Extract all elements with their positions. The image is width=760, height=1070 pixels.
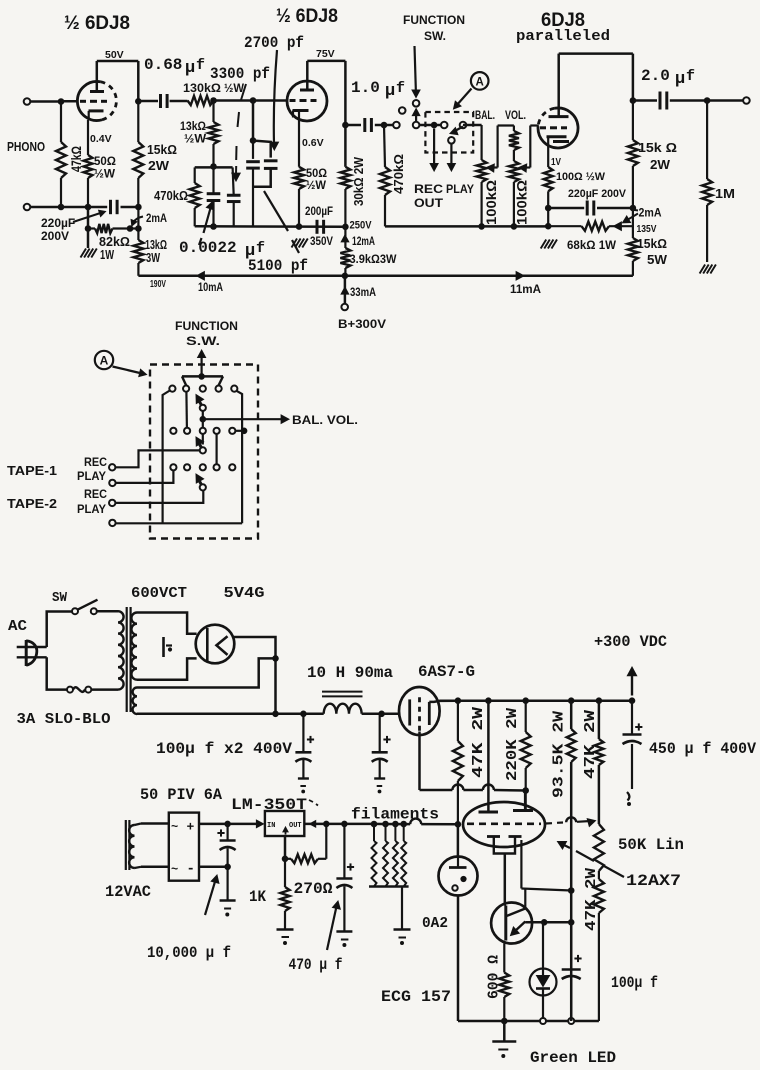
node rail x525.7 <box>523 698 529 704</box>
center tap mark <box>164 637 173 657</box>
svg-text:135V: 135V <box>637 224 657 235</box>
wire to C6 <box>633 99 657 102</box>
label 2.0 µ f <box>641 67 695 89</box>
leader A to box <box>454 89 472 110</box>
label 450 µ f 400V <box>649 740 757 758</box>
svg-text:~: ~ <box>171 820 178 834</box>
svg-text:½W: ½W <box>184 134 206 146</box>
wire node B down <box>252 101 255 141</box>
svg-text:FUNCTION: FUNCTION <box>175 319 238 333</box>
svg-text:ECG 157: ECG 157 <box>381 988 451 1006</box>
svg-text:5V4G: 5V4G <box>224 585 265 602</box>
switch contact c <box>413 122 420 129</box>
wire node to 30k <box>344 125 347 167</box>
label 6AS7-G <box>418 663 475 681</box>
symbol A circle 2 <box>95 351 113 369</box>
svg-text:PHONO: PHONO <box>7 139 45 154</box>
svg-text:½W: ½W <box>224 83 244 95</box>
contact r1c1 <box>169 386 175 392</box>
label 100uf x2 400V <box>156 740 292 758</box>
label 3A SLO-BLO <box>17 711 111 728</box>
svg-text:+: + <box>187 820 195 835</box>
label 30kΩ 2W <box>352 157 366 206</box>
svg-text:1V: 1V <box>551 156 561 168</box>
svg-text:µ: µ <box>385 82 395 101</box>
capacitor C14 10000uF <box>217 824 235 916</box>
svg-text:2mA: 2mA <box>146 213 167 225</box>
svg-text:600VCT: 600VCT <box>131 585 187 602</box>
svg-text:PLAY: PLAY <box>77 471 106 483</box>
BR1 marks <box>171 820 195 878</box>
wiper arrow in box <box>450 127 463 135</box>
leader 10000uf <box>205 875 219 915</box>
contact r3c3 <box>200 464 206 470</box>
svg-text:68kΩ 1W: 68kΩ 1W <box>567 240 616 252</box>
label filaments <box>351 806 439 824</box>
svg-text:3A SLO-BLO: 3A SLO-BLO <box>17 711 111 728</box>
AC plug <box>17 640 47 666</box>
svg-text:~: ~ <box>171 863 178 877</box>
svg-text:100kΩ: 100kΩ <box>483 180 499 225</box>
svg-text:50Ω: 50Ω <box>94 156 116 168</box>
label 0.68 µ f <box>144 56 205 78</box>
node 138-228 <box>136 226 142 232</box>
dashed box detail <box>150 365 258 539</box>
label 50K Lin <box>618 836 684 854</box>
switch contact float <box>399 107 406 114</box>
label 2mA out <box>623 208 662 223</box>
terminal PLAY2 <box>109 520 115 526</box>
5V top lead <box>137 658 274 687</box>
node 82k left <box>85 226 91 232</box>
capacitor C7 220uF <box>587 201 594 216</box>
svg-text:2W: 2W <box>650 158 670 172</box>
contact r1c5 <box>231 386 237 392</box>
raw DC rail <box>137 713 324 716</box>
label 600VCT <box>131 585 187 602</box>
svg-text:450 µ f 400V: 450 µ f 400V <box>649 740 757 758</box>
wire col2 to plate <box>487 701 490 812</box>
svg-text:6AS7-G: 6AS7-G <box>418 663 475 681</box>
svg-text:0.68: 0.68 <box>144 56 182 74</box>
terminal B+300V <box>341 304 348 311</box>
Q1 emitter <box>511 922 526 936</box>
input terminal J1b <box>24 204 31 211</box>
choke rail out <box>362 711 400 717</box>
node 250V <box>343 224 349 230</box>
ground stage1 <box>81 249 97 258</box>
wire to cathode node <box>61 206 107 209</box>
resistor R4 13k 1/2W <box>209 101 219 167</box>
resistor R24 47K 2W lower <box>594 879 604 1021</box>
svg-text:50K Lin: 50K Lin <box>618 836 684 854</box>
svg-text:1M: 1M <box>715 187 735 201</box>
label LM-350T <box>231 796 318 814</box>
label REC 1 <box>84 457 107 469</box>
wire J1 to grid node <box>30 100 61 103</box>
svg-text:TAPE-2: TAPE-2 <box>7 497 57 511</box>
output terminal J2 <box>743 97 750 104</box>
svg-text:200µF: 200µF <box>305 206 333 218</box>
U1 pin labels <box>267 822 302 835</box>
node C <box>250 138 256 144</box>
svg-text:2mA: 2mA <box>639 208 662 220</box>
svg-text:½W: ½W <box>306 180 326 192</box>
internal wire r1c2-r2c2 <box>185 392 188 428</box>
svg-text:600 Ω: 600 Ω <box>486 955 503 999</box>
wire node to row2 <box>202 419 204 444</box>
contact e <box>460 122 467 129</box>
svg-text:100µ f x2 400V: 100µ f x2 400V <box>156 740 292 758</box>
wiper1 to node <box>200 411 206 422</box>
U1 out wire <box>304 821 374 828</box>
label 470kΩ (rot) <box>391 154 406 194</box>
svg-text:½ 6DJ8: ½ 6DJ8 <box>64 13 130 34</box>
label 1V <box>551 156 561 168</box>
wire node D to sw contact <box>384 124 393 127</box>
label 200µF <box>305 206 333 218</box>
resistor R8 470k (grid) <box>380 125 390 226</box>
svg-text:93.5K 2W: 93.5K 2W <box>551 711 568 798</box>
svg-text:2W: 2W <box>148 159 169 173</box>
svg-text:470 µ f: 470 µ f <box>289 956 343 974</box>
resistor R25 600Ω <box>499 944 509 1022</box>
label 0.0022 µ f <box>179 239 265 261</box>
svg-text:190V: 190V <box>150 279 166 290</box>
svg-text:µ: µ <box>185 59 195 78</box>
node riaa bottom <box>211 224 217 230</box>
V6 right cathode drop <box>520 840 522 889</box>
node output <box>630 98 636 104</box>
fuse F1 3A SLO-BLO <box>67 687 118 693</box>
svg-text:f: f <box>196 57 205 74</box>
riaa top bar <box>195 166 233 169</box>
svg-text:47K 2W: 47K 2W <box>470 707 487 778</box>
svg-text:220K 2W: 220K 2W <box>504 708 521 781</box>
label 190V <box>150 279 166 290</box>
switch SW contacts <box>72 608 97 614</box>
capacitor C1 0.68uF <box>161 94 168 108</box>
svg-text:0.6V: 0.6V <box>302 137 324 149</box>
resistor R14 82k 1W <box>88 224 138 233</box>
wire node B to V2 grid <box>253 99 287 102</box>
svg-text:33mA: 33mA <box>350 285 376 299</box>
label TAPE-1 <box>7 464 57 478</box>
B+ rail bottom <box>138 275 633 278</box>
node 138-207 <box>136 204 142 210</box>
svg-text:12mA: 12mA <box>352 236 375 248</box>
wire grid node OA2 <box>457 824 460 857</box>
leader 2700pf <box>270 50 278 150</box>
label PHONO <box>7 139 45 154</box>
arrow up function <box>198 350 206 375</box>
label 2700 pf <box>244 34 304 52</box>
svg-text:½W: ½W <box>94 169 115 181</box>
svg-text:PLAY: PLAY <box>446 182 474 196</box>
LED rail junction <box>540 1018 546 1024</box>
label FUNCTION SW. <box>403 15 465 43</box>
svg-text:3300 pf: 3300 pf <box>210 65 270 83</box>
arrow +300VDC <box>627 667 636 696</box>
pot VOL 100k <box>509 126 519 227</box>
resistor R20 47K 2W <box>453 701 463 825</box>
V6 grid dashes <box>467 822 541 825</box>
label PLAY 2 <box>77 504 106 516</box>
heater ground <box>394 887 411 945</box>
svg-text:TAPE-1: TAPE-1 <box>7 464 57 478</box>
label 100kΩ BAL <box>483 180 499 225</box>
resistor R22 93.5K 2W <box>567 701 576 1021</box>
capacitor C8 220uF 200V <box>111 200 118 214</box>
resistor R1 47k <box>56 102 66 208</box>
wire cathode-1 down <box>87 207 90 229</box>
svg-text:47kΩ: 47kΩ <box>68 146 84 172</box>
svg-text:47K 2W: 47K 2W <box>583 868 600 931</box>
node plate-1 <box>136 99 142 105</box>
V5 output jog <box>429 701 458 702</box>
wire C1 to R3 <box>170 100 188 103</box>
label 3.9kΩ3W <box>350 254 397 266</box>
svg-text:15kΩ: 15kΩ <box>147 143 177 157</box>
svg-text:1W: 1W <box>100 248 114 262</box>
contact r3c5 <box>229 464 235 470</box>
label VOL. <box>505 110 526 122</box>
tube V6 12AX7 <box>463 802 545 847</box>
U1 adj lead <box>282 836 288 862</box>
svg-text:350V: 350V <box>310 236 333 248</box>
switch wiper arrow <box>412 109 420 122</box>
transistor Q1 ECG157 <box>491 903 532 944</box>
svg-text:PLAY: PLAY <box>77 504 106 516</box>
label 47K 2W c <box>583 868 600 931</box>
node main gnd <box>502 1018 508 1024</box>
node D (470k top) <box>381 122 387 128</box>
label 50Ω ½W (V2) <box>306 168 327 192</box>
leader 12AX7 <box>558 842 625 878</box>
heater bottom bar <box>369 885 409 887</box>
contact r2c3 <box>200 428 206 434</box>
T2 top lead <box>135 824 169 826</box>
resistor R12 15k 5W <box>628 208 638 276</box>
node rail x632.0 <box>629 698 635 704</box>
resistor R27 1K <box>277 859 294 945</box>
heater tap 374 <box>371 821 377 827</box>
svg-text:SW: SW <box>52 590 68 606</box>
svg-text:100Ω ½W: 100Ω ½W <box>556 171 606 183</box>
wire SW to xfmr <box>97 610 118 613</box>
svg-text:AC: AC <box>8 618 27 635</box>
svg-text:82kΩ: 82kΩ <box>99 235 130 249</box>
svg-text:BAL. VOL.: BAL. VOL. <box>292 413 358 427</box>
label 100µ f <box>611 974 658 992</box>
svg-text:OUT: OUT <box>289 822 302 830</box>
svg-text:f: f <box>396 80 405 97</box>
svg-text:5W: 5W <box>647 253 667 267</box>
svg-text:1.0: 1.0 <box>351 79 380 97</box>
wire C5 to node D <box>375 124 384 127</box>
V4 output wire <box>234 637 276 714</box>
wire box to BAL pot <box>463 124 482 127</box>
bar row1 <box>182 374 223 386</box>
wire plate-2 to C5 <box>345 124 361 127</box>
svg-text:VOL.: VOL. <box>505 110 526 122</box>
label 0.4V <box>90 133 112 145</box>
label PLAY 1 <box>77 471 106 483</box>
resistor R3 130k 1/2W <box>188 96 214 105</box>
internal wire r2c4-r3c4 <box>216 434 218 464</box>
heater tap 385.5 <box>383 821 389 827</box>
hop bus over V5 lead <box>410 819 421 825</box>
label +300 VDC <box>594 633 667 651</box>
svg-text:10 H 90ma: 10 H 90ma <box>307 664 393 682</box>
svg-text:paralleled: paralleled <box>516 28 610 45</box>
contact f <box>448 137 455 144</box>
wire REC1 to wiper2 <box>115 450 199 467</box>
node rail x488.4 <box>486 698 492 704</box>
wire REC2 to wiper3 <box>115 491 203 503</box>
svg-text:47K 2W: 47K 2W <box>582 710 599 779</box>
label PLAY <box>446 182 474 196</box>
label 93.5K 2W <box>551 711 568 798</box>
Q1 collector <box>507 889 526 917</box>
ground 1M <box>700 265 716 274</box>
label 1.0 µ f <box>351 79 405 101</box>
label 47K 2W b <box>582 710 599 779</box>
label ECG 157 <box>381 988 451 1006</box>
V6 cathode lead <box>504 854 507 906</box>
node grid ref <box>455 822 461 828</box>
terminal REC2 <box>109 500 115 506</box>
stage-3 title 6DJ8 <box>541 10 585 31</box>
V7 bottom lead <box>457 896 460 1022</box>
wire to J2 <box>707 99 743 102</box>
svg-text:2.0: 2.0 <box>641 67 670 85</box>
node REC OUT tap <box>431 122 437 128</box>
label 100kΩ VOL <box>514 180 530 225</box>
V5 grid lead down <box>418 732 421 791</box>
svg-text:10mA: 10mA <box>198 280 223 294</box>
symbol A circle <box>471 72 489 90</box>
resistor R7 30k 2W <box>340 167 350 227</box>
label 50Ω ½W <box>94 156 116 181</box>
label 12VAC <box>105 883 151 901</box>
BR1 - output <box>199 866 228 869</box>
label 0A2 <box>422 915 448 932</box>
label FUNCTION S.W. <box>175 319 238 348</box>
label paralleled <box>516 28 610 45</box>
svg-text:1K: 1K <box>249 888 267 906</box>
contact r3c4 <box>214 464 220 470</box>
wire 250V down <box>344 227 346 248</box>
node 47k bottom <box>58 204 64 210</box>
label 1M <box>715 187 735 201</box>
pot BAL 100k <box>477 125 487 226</box>
label 50 PIV 6A <box>140 786 223 804</box>
label 82kΩ 1W <box>99 235 130 262</box>
label 135V <box>637 224 657 235</box>
LED D1 green <box>530 922 557 1018</box>
wire plate-1 to C1 <box>138 100 158 103</box>
capacitor C12 450uF 400V <box>623 701 643 806</box>
svg-text:IN: IN <box>267 822 275 830</box>
svg-text:µ: µ <box>675 70 685 89</box>
svg-text:220µF 200V: 220µF 200V <box>568 188 627 200</box>
rectifier V4 5V4G <box>196 625 235 664</box>
node grid-1 <box>58 99 64 105</box>
capacitor C6 2.0uF <box>660 92 667 110</box>
label 220uF 200V <box>568 188 627 200</box>
label TAPE-2 <box>7 497 57 511</box>
bottom rail <box>458 1020 599 1023</box>
transformer T2 core <box>126 820 130 870</box>
resistor R21 220K 2W <box>521 701 531 811</box>
node 1M top <box>704 98 710 104</box>
node rail x457.9 <box>455 698 461 704</box>
node rail x598.9 <box>596 698 602 704</box>
contact r1c3 <box>200 386 206 392</box>
svg-text:50V: 50V <box>105 49 124 61</box>
capacitor C3a (5100pf) <box>246 141 260 227</box>
label 470kΩ <box>154 189 188 203</box>
transformer T2 winding <box>129 825 134 868</box>
capacitor C13 100uF <box>562 922 582 1018</box>
contact r2c4 <box>214 428 220 434</box>
label REC 2 <box>84 489 107 501</box>
HV bottom lead <box>137 658 197 679</box>
triode V3 (6DJ8 paralleled) <box>538 54 578 167</box>
cap rail junction <box>568 1018 574 1024</box>
leader 5100pf <box>264 191 299 253</box>
svg-text:100µ f: 100µ f <box>611 974 658 992</box>
label 2mA stage1 <box>131 213 167 226</box>
label 47K 2W a <box>470 707 487 778</box>
node 68k left <box>545 223 551 229</box>
wire C6 to out <box>670 99 707 102</box>
label 13kΩ 3W <box>145 238 167 265</box>
wiper2 <box>196 437 206 454</box>
arrow 10mA <box>197 272 224 294</box>
wire 33mA + B+ terminal <box>341 276 376 304</box>
svg-text:30kΩ 2W: 30kΩ 2W <box>352 157 366 206</box>
label 350V <box>310 236 333 248</box>
svg-text:OUT: OUT <box>414 196 444 210</box>
svg-text:-: - <box>187 862 195 878</box>
arrow BAL VOL <box>203 413 358 427</box>
resistor R23 47K 2W upper <box>594 701 603 824</box>
tube V5 6AS7-G <box>399 687 440 735</box>
tube V7 OA2 <box>439 857 478 896</box>
transformer T1 5V winding <box>133 688 137 715</box>
label Green LED <box>530 1049 616 1067</box>
svg-text:REC: REC <box>84 457 107 469</box>
ground V3 cathode <box>541 240 557 249</box>
label 10,000 µ f <box>147 944 231 962</box>
label 75V <box>316 48 335 60</box>
svg-text:250V: 250V <box>350 220 373 232</box>
capacitor C15 470uF <box>336 824 354 947</box>
arrow 12mA <box>341 235 375 248</box>
heater tap 403.7 <box>401 821 407 827</box>
node V2 cathode <box>296 224 302 230</box>
node riaa top <box>211 164 217 170</box>
switch contact a <box>393 122 400 129</box>
label 130kΩ ½W <box>183 83 244 95</box>
svg-text:2700 pf: 2700 pf <box>244 34 304 52</box>
label 15kΩ 5W <box>637 237 667 267</box>
node raw rail <box>273 711 279 717</box>
label 600 Ω <box>486 955 503 999</box>
BR1 + output <box>199 820 264 828</box>
